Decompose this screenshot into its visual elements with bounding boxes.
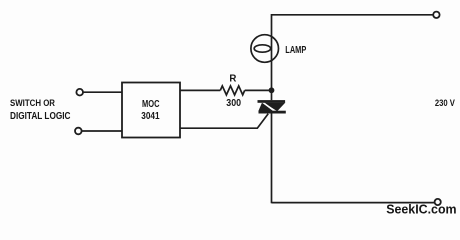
svg-text:MOC: MOC: [142, 99, 160, 110]
lamp L1 circle: [251, 35, 279, 63]
wire MOC output to resistor: [180, 89, 220, 91]
triac right triangle (points down): [264, 103, 285, 112]
svg-text:R: R: [229, 74, 236, 85]
junction dot: [269, 87, 275, 93]
optocoupler U1 MOC 3041 box: [122, 83, 180, 138]
svg-text:SeekIC.com: SeekIC.com: [386, 202, 456, 217]
svg-text:300: 300: [226, 98, 241, 109]
terminal AC top-right: [433, 12, 439, 18]
triac top bar MT2: [258, 100, 286, 103]
triac Q1 wire mask between bars: [257, 100, 287, 113]
wire input bottom pin: [82, 130, 122, 132]
resistor R 300 zigzag: [220, 86, 244, 95]
wire resistor to triac junction: [245, 89, 272, 91]
terminal input bottom-left: [75, 128, 82, 135]
svg-text:230 V: 230 V: [435, 98, 456, 109]
wire main vertical (through lamp and triac): [271, 14, 273, 203]
terminal input top-left: [76, 89, 83, 96]
wire bottom horizontal (triac to AC terminal): [272, 202, 435, 204]
triac left triangle (points up): [258, 103, 274, 112]
triac bottom bar MT1: [259, 111, 286, 114]
wire input top pin: [83, 91, 122, 93]
wire top horizontal (lamp to AC terminal): [272, 14, 434, 16]
triac gap white line: [262, 102, 276, 112]
terminal AC bottom-right: [435, 199, 441, 205]
svg-text:DIGITAL LOGIC: DIGITAL LOGIC: [10, 111, 71, 122]
lamp filament loop: [254, 45, 270, 52]
svg-text:LAMP: LAMP: [285, 45, 306, 56]
svg-text:3041: 3041: [141, 111, 160, 122]
svg-text:SWITCH OR: SWITCH OR: [10, 98, 55, 109]
wire gate from MOC: [180, 114, 268, 129]
